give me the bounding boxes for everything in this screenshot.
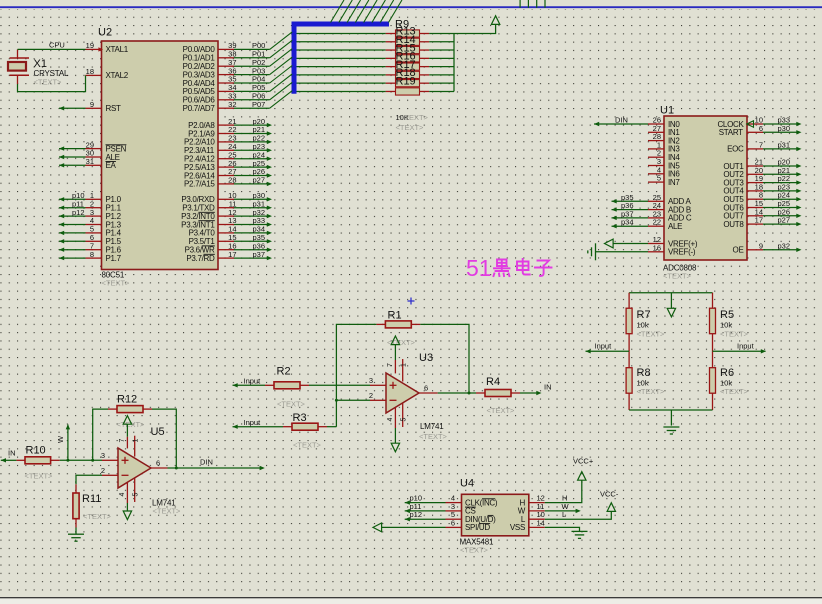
- power arrow above U3: [394, 344, 396, 360]
- junction W/R10 wire: [66, 459, 69, 462]
- svg-text:U4: U4: [460, 478, 474, 490]
- resistor R4: [476, 392, 485, 394]
- wire p25: [763, 207, 798, 209]
- wire P07 to bus: [234, 107, 270, 109]
- wire Input to R3: [233, 426, 284, 428]
- wire Input to R2: [233, 384, 266, 386]
- wire ALE: [59, 156, 86, 158]
- wire rail to power: [454, 25, 496, 34]
- svg-text:CPU: CPU: [49, 41, 65, 50]
- wire R3 to inverting node: [327, 426, 336, 428]
- crystal X1: [10, 57, 30, 59]
- wire DIN to U1 IN0: [594, 123, 648, 125]
- svg-text:L: L: [562, 510, 566, 519]
- wire R18 to pullup rail: [429, 74, 454, 76]
- resistor R8: [628, 351, 630, 367]
- svg-text:SPI/UD: SPI/UD: [465, 523, 490, 532]
- resistor R15: [386, 49, 396, 51]
- svg-text:R1: R1: [388, 309, 402, 321]
- svg-text:<TEXT>: <TEXT>: [34, 77, 63, 86]
- wire p12 to U4 DIN: [405, 518, 446, 520]
- wire p37: [234, 257, 269, 259]
- svg-text:U1: U1: [660, 105, 674, 117]
- resistor R3: [283, 426, 292, 428]
- svg-text:p31: p31: [778, 140, 791, 149]
- svg-text:<TEXT>: <TEXT>: [720, 329, 749, 338]
- svg-text:17: 17: [755, 216, 763, 225]
- svg-text:W: W: [56, 435, 65, 443]
- resistor R2: [265, 384, 274, 386]
- wire p22: [763, 182, 798, 184]
- wire bus to R17: [297, 66, 386, 68]
- svg-text:7: 7: [759, 140, 763, 149]
- svg-text:<TEXT>: <TEXT>: [720, 387, 749, 396]
- wire R12 right to U5 output: [152, 409, 176, 468]
- wire p33: [234, 224, 269, 226]
- wire U4 W output: [545, 510, 578, 512]
- svg-text:2: 2: [369, 391, 373, 400]
- net W vertical wire: [67, 425, 69, 461]
- wire XTAL2 to crystal: [18, 75, 86, 91]
- svg-text:IN: IN: [544, 383, 552, 392]
- wire p34: [234, 232, 269, 234]
- wire p27: [763, 223, 798, 225]
- wire R12 left to U5 + input: [93, 409, 108, 460]
- svg-text:R7: R7: [637, 309, 651, 321]
- svg-text:DIN: DIN: [200, 458, 213, 467]
- wire p20: [234, 124, 269, 126]
- svg-text:OE: OE: [733, 246, 744, 255]
- power arrow at U4 SPI/UD: [373, 523, 382, 532]
- chip U1 ADC0808: [664, 116, 747, 260]
- wire XTAL1 to crystal: [18, 48, 86, 50]
- svg-text:9: 9: [90, 100, 94, 109]
- svg-text:p37: p37: [253, 250, 266, 259]
- svg-text:10k: 10k: [720, 378, 732, 387]
- wire p11 to U4 CS: [405, 510, 446, 512]
- svg-text:10k: 10k: [637, 321, 649, 330]
- wire U3 output to R4: [438, 392, 476, 394]
- svg-text:P0.7/AD7: P0.7/AD7: [183, 104, 216, 113]
- svg-text:VREF(-): VREF(-): [668, 248, 696, 257]
- bus: vertical P0 bus segment: [292, 24, 297, 94]
- svg-text:R3: R3: [293, 412, 307, 424]
- wire RST: [59, 107, 86, 109]
- svg-text:XTAL1: XTAL1: [106, 45, 129, 54]
- wire U4 H to VCC+: [545, 480, 582, 502]
- svg-text:START: START: [719, 128, 743, 137]
- svg-text:<TEXT>: <TEXT>: [387, 338, 416, 347]
- junction R12/+input: [91, 459, 94, 462]
- wire p24: [763, 198, 798, 200]
- svg-text:5: 5: [400, 417, 407, 421]
- wire P1.2: [59, 215, 86, 217]
- svg-text:7: 7: [387, 363, 394, 367]
- wire P1.7: [59, 257, 86, 259]
- svg-text:7: 7: [119, 438, 126, 442]
- wire p21: [234, 133, 269, 135]
- bus entries: diagonals from P0 bus up to main bus: [331, 0, 345, 23]
- svg-text:P2.7/A15: P2.7/A15: [184, 180, 215, 189]
- wire U5 - input to R11: [76, 475, 102, 484]
- svg-text:<TEXT>: <TEXT>: [83, 512, 112, 521]
- ground arrow below U3: [394, 428, 396, 443]
- wire p30: [234, 198, 269, 200]
- wire p22: [234, 141, 269, 143]
- wire U5 output DIN: [168, 467, 262, 469]
- U2 left pin stubs: [86, 48, 102, 50]
- svg-text:5: 5: [132, 492, 139, 496]
- svg-text:6: 6: [451, 518, 455, 527]
- wire p21: [763, 173, 798, 175]
- svg-text:R4: R4: [486, 376, 500, 388]
- wire p31: [234, 207, 269, 209]
- svg-text:16: 16: [653, 243, 661, 252]
- svg-text:<TEXT>: <TEXT>: [460, 546, 489, 555]
- wire VREF(-) to ground: [596, 251, 649, 253]
- svg-text:<TEXT>: <TEXT>: [153, 507, 182, 516]
- wire R4 to IN: [520, 392, 539, 394]
- svg-text:<TEXT>: <TEXT>: [419, 432, 448, 441]
- wire P02 to bus: [234, 65, 270, 67]
- svg-text:R2: R2: [277, 366, 291, 378]
- svg-text:p30: p30: [778, 124, 791, 133]
- wire P1.3: [59, 224, 86, 226]
- wire p23: [234, 149, 269, 151]
- wire p27: [234, 183, 269, 185]
- wire R17 to pullup rail: [429, 66, 454, 68]
- svg-text:9: 9: [759, 241, 763, 250]
- svg-text:3: 3: [101, 451, 105, 460]
- wire p35: [612, 200, 649, 202]
- ground arrow below U5: [126, 503, 128, 511]
- wire p36: [612, 209, 649, 211]
- wire pullup rail vertical: [453, 34, 455, 92]
- wire P1.4: [59, 232, 86, 234]
- svg-text:1: 1: [400, 363, 407, 367]
- wire P04 to bus: [234, 82, 270, 84]
- svg-text:IN: IN: [8, 449, 16, 458]
- U1 clock pin chevron: [747, 121, 754, 127]
- resistor R7: [628, 293, 630, 309]
- op-amp U3 LM741: [386, 373, 419, 413]
- wire PSEN: [59, 148, 86, 150]
- wire p10 to U4 CLK: [405, 502, 446, 504]
- svg-text:R11: R11: [82, 493, 101, 505]
- power arrow VCC+: [578, 472, 586, 481]
- svg-text:p34: p34: [621, 218, 634, 227]
- wire P1.5: [59, 240, 86, 242]
- wire R14 to pullup rail: [429, 41, 454, 43]
- chip U4 MAX5481: [462, 494, 529, 536]
- wire P1.1: [59, 207, 86, 209]
- svg-text:R19: R19: [396, 75, 416, 87]
- svg-text:<TEXT>: <TEXT>: [637, 387, 666, 396]
- svg-text:<TEXT>: <TEXT>: [487, 406, 516, 415]
- wire P03 to bus: [234, 74, 270, 76]
- wire R16 to pullup rail: [429, 57, 454, 59]
- svg-text:5: 5: [657, 174, 661, 183]
- svg-text:<TEXT>: <TEXT>: [637, 329, 666, 338]
- wire P06 to bus: [234, 99, 270, 101]
- svg-text:18: 18: [86, 67, 94, 76]
- wire p24: [234, 158, 269, 160]
- svg-text:VSS: VSS: [510, 523, 525, 532]
- svg-text:p27: p27: [253, 176, 266, 185]
- svg-text:31: 31: [86, 157, 94, 166]
- wire P1.6: [59, 249, 86, 251]
- power arrow above U5: [126, 424, 128, 437]
- svg-text:<TEXT>: <TEXT>: [400, 113, 429, 122]
- wire P05 to bus: [234, 90, 270, 92]
- junction R1/output: [468, 392, 471, 395]
- wire p32: [234, 215, 269, 217]
- wire bus to R19: [297, 82, 386, 84]
- wire P1.0: [59, 198, 86, 200]
- wire R10 to U5 + input: [60, 459, 102, 461]
- resistor R19: [386, 82, 396, 84]
- svg-text:R5: R5: [720, 309, 734, 321]
- ground arrow at bridge top: [670, 293, 672, 309]
- svg-text:p32: p32: [778, 241, 791, 250]
- wire R13 to pullup rail: [429, 33, 454, 35]
- svg-text:p12: p12: [72, 208, 85, 217]
- wire U4 L to VCC-: [545, 512, 612, 520]
- svg-text:6: 6: [424, 384, 428, 393]
- wire p35: [234, 240, 269, 242]
- svg-text:Input: Input: [244, 418, 262, 427]
- svg-text:<TEXT>: <TEXT>: [396, 123, 425, 132]
- svg-text:3: 3: [369, 376, 373, 385]
- wire bus to R14: [297, 41, 386, 43]
- op-amp U5 LM741: [118, 448, 151, 488]
- svg-text:U5: U5: [151, 426, 165, 438]
- junction R12/output: [175, 467, 178, 470]
- svg-text:IN7: IN7: [668, 178, 680, 187]
- svg-text:51: 51: [466, 255, 492, 281]
- resistor R10: [16, 459, 25, 461]
- wire P01 to bus: [234, 57, 270, 59]
- wire p26: [763, 215, 798, 217]
- svg-text:U3: U3: [419, 352, 433, 364]
- wire bus to R13: [297, 33, 386, 35]
- svg-text:32: 32: [228, 100, 236, 109]
- svg-text:U2: U2: [98, 27, 112, 39]
- svg-text:VCC-: VCC-: [600, 490, 619, 499]
- resistor R1: [376, 323, 385, 325]
- bus: horizontal thick bus segment to R9: [292, 22, 390, 27]
- ground below bridge: [670, 410, 672, 426]
- svg-text:PSEN: PSEN: [106, 144, 127, 153]
- wire bus to R16: [297, 57, 386, 59]
- bus entries: stubs at top of sheet near x=530: [519, 0, 521, 8]
- U1 right pin stubs: [747, 123, 763, 125]
- wire p30: [763, 131, 798, 133]
- wire p26: [234, 175, 269, 177]
- wire R19 to pullup rail: [429, 82, 454, 84]
- U2 XTAL1 pin arrow: [98, 47, 103, 51]
- svg-text:<TEXT>: <TEXT>: [663, 272, 692, 281]
- wire p34: [612, 225, 649, 227]
- power arrow VCC-: [607, 503, 615, 512]
- wire IN to R10: [1, 459, 17, 461]
- svg-text:19: 19: [86, 41, 94, 50]
- svg-text:LM741: LM741: [420, 422, 444, 431]
- resistor R13: [386, 33, 396, 35]
- svg-text:P3.7/RD: P3.7/RD: [186, 254, 215, 263]
- junction R1/R3/inverting input: [335, 399, 338, 402]
- wire bridge top rail: [629, 292, 712, 294]
- ground at VREF(-) (rotated): [595, 243, 597, 260]
- svg-text:<TEXT>: <TEXT>: [25, 472, 54, 481]
- wire p33: [763, 123, 798, 125]
- svg-text:Input: Input: [244, 376, 262, 385]
- wire P00 to bus: [234, 48, 270, 50]
- svg-text:10k: 10k: [637, 378, 649, 387]
- wire p20: [763, 165, 798, 167]
- wire p32: [763, 249, 798, 251]
- svg-text:Input: Input: [737, 342, 755, 351]
- wire R11 to ground: [75, 528, 77, 535]
- wire U4 VSS to ground: [545, 527, 580, 531]
- svg-text:EA: EA: [106, 161, 117, 170]
- svg-text:p12: p12: [410, 510, 423, 519]
- svg-text:6: 6: [759, 124, 763, 133]
- svg-text:17: 17: [228, 250, 236, 259]
- svg-text:8: 8: [90, 250, 94, 259]
- resistor R12: [108, 408, 117, 410]
- power arrow above R9 rail: [491, 16, 499, 25]
- wire R9 element 8 to pullup rail: [429, 90, 454, 92]
- ground at U4 VSS: [572, 530, 588, 532]
- svg-text:2: 2: [101, 466, 105, 475]
- wire U4 SPI/UD long input: [382, 526, 446, 528]
- svg-text:EOC: EOC: [727, 145, 744, 154]
- resistor R6: [712, 351, 714, 367]
- wire p37: [612, 217, 649, 219]
- wire R1 left to U3 inverting input: [336, 324, 376, 426]
- resistor R14: [386, 41, 396, 43]
- wire bus to R15: [297, 49, 386, 51]
- resistor R9 element 8: [386, 90, 396, 92]
- svg-text:4: 4: [119, 492, 126, 496]
- svg-text:1: 1: [132, 438, 139, 442]
- svg-text:R12: R12: [117, 393, 137, 405]
- svg-text:28: 28: [228, 176, 236, 185]
- svg-text:XTAL2: XTAL2: [106, 71, 129, 80]
- svg-text:R10: R10: [26, 444, 46, 456]
- wire Input left of bridge: [586, 350, 630, 352]
- wire p25: [234, 166, 269, 168]
- U2 right pin stubs: [218, 48, 234, 50]
- wire p36: [234, 249, 269, 251]
- svg-text:R6: R6: [720, 367, 734, 379]
- bus: main horizontal bus at top of sheet: [0, 6, 822, 8]
- svg-text:OUT8: OUT8: [723, 220, 744, 229]
- svg-text:22: 22: [653, 218, 661, 227]
- wire bridge bottom rail: [629, 409, 712, 411]
- resistor R17: [386, 66, 396, 68]
- svg-text:10k: 10k: [720, 321, 732, 330]
- resistor R5: [712, 293, 714, 309]
- resistor R11: [75, 484, 77, 493]
- wire R1 right to U3 output: [420, 324, 469, 393]
- svg-text:4: 4: [387, 417, 394, 421]
- svg-text:p27: p27: [778, 216, 791, 225]
- resistor R18: [386, 74, 396, 76]
- wire VREF(+) to power: [613, 243, 648, 245]
- svg-text:6: 6: [156, 459, 160, 468]
- wire bus to R18: [297, 74, 386, 76]
- wire bus to R9 element 8: [297, 90, 386, 92]
- power arrow at VREF(+): [605, 239, 614, 248]
- origin marker (blue cross): [408, 300, 415, 302]
- resistor R16: [386, 57, 396, 59]
- svg-text:ALE: ALE: [668, 222, 682, 231]
- wire R15 to pullup rail: [429, 49, 454, 51]
- svg-text:VCC+: VCC+: [573, 457, 594, 466]
- op chip U2 80C51 microcontroller: [102, 41, 219, 270]
- svg-text:P07: P07: [252, 100, 265, 109]
- svg-text:<TEXT>: <TEXT>: [293, 440, 322, 449]
- wire R2 to U3 + input: [309, 384, 370, 386]
- svg-text:R8: R8: [637, 367, 651, 379]
- svg-text:RST: RST: [106, 104, 122, 113]
- svg-text:Input: Input: [595, 342, 613, 351]
- svg-text:<TEXT>: <TEXT>: [102, 279, 131, 288]
- wire inverting node to U3 - input: [336, 399, 370, 401]
- svg-text:<TEXT>: <TEXT>: [277, 400, 306, 409]
- svg-text:P1.7: P1.7: [106, 254, 122, 263]
- wire p31: [763, 148, 798, 150]
- svg-text:DIN: DIN: [615, 116, 628, 125]
- wire Input right of bridge: [713, 350, 766, 352]
- wire p23: [763, 190, 798, 192]
- wire EA: [59, 164, 86, 166]
- ground below R11: [68, 533, 84, 535]
- svg-text:14: 14: [537, 518, 545, 527]
